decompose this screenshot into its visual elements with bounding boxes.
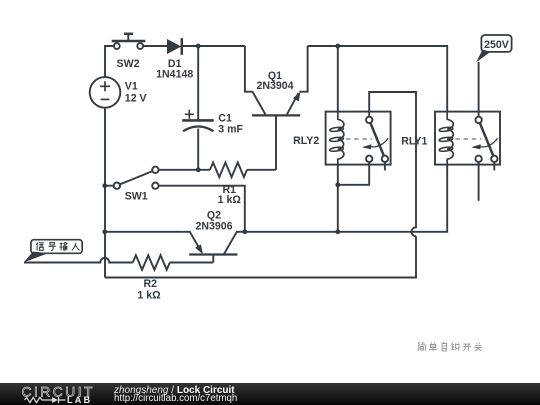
resistor R2 1k	[133, 255, 170, 270]
relay RLY2	[326, 112, 391, 165]
wire R1 to Q1 base	[247, 169, 276, 171]
node dot Q2 emitter junction	[242, 229, 247, 234]
wire D1 to Q1 collector corner	[183, 45, 245, 47]
svg-text:LAB: LAB	[67, 395, 92, 405]
wire bottom return rail	[105, 236, 416, 277]
wire SW1 upper throw to R1	[159, 169, 210, 171]
node dot SW1 pivot on left rail	[102, 183, 107, 188]
label 信号输入 signal input glyphs	[36, 242, 79, 250]
wire RLY1 top contact to 250V	[478, 62, 480, 117]
wire Q2 emitter node to RLY1 coil bottom	[245, 165, 447, 232]
transistor Q2 2N3906	[182, 232, 244, 263]
wire RLY2 coil drop	[337, 46, 339, 112]
wire left rail to Q2 collector	[105, 231, 183, 233]
resistor R1 1k	[210, 163, 247, 178]
svg-text:SW2: SW2	[117, 58, 140, 70]
svg-text:V1: V1	[125, 81, 138, 93]
node dot RLY2 coil/common tie	[335, 182, 340, 187]
footer logo CIRCUIT LAB	[18, 383, 118, 405]
node dot top rail RLY2 branch	[335, 44, 340, 49]
svg-text:250V: 250V	[484, 39, 509, 51]
wire top-left rail from V1 to SW2	[105, 46, 114, 77]
voltage flag 250V	[476, 35, 511, 62]
svg-text:2N3904: 2N3904	[256, 80, 293, 92]
svg-text:1 kΩ: 1 kΩ	[137, 290, 161, 302]
wire RLY2 coil bottom to return	[337, 165, 339, 232]
svg-text:1N4148: 1N4148	[156, 68, 193, 80]
voltage source V1 12V	[90, 77, 121, 108]
signal input callout 信号输入	[24, 240, 82, 263]
wire RLY1 common contact dangling	[478, 162, 480, 201]
left rail V1 to bottom	[104, 108, 106, 278]
svg-text:12 V: 12 V	[125, 92, 147, 104]
svg-text:2N3906: 2N3906	[195, 220, 232, 232]
svg-text:3 mF: 3 mF	[218, 123, 243, 135]
switch SW1	[105, 167, 159, 189]
capacitor C1 3mF	[182, 46, 214, 170]
wire RLY2 common contact to coil return junction	[338, 162, 369, 185]
wire RLY2 NC contact stub	[384, 162, 386, 170]
pushbutton SW2	[112, 34, 146, 49]
svg-text:RLY1: RLY1	[401, 136, 427, 148]
node dot C1 bottom junction	[196, 167, 201, 172]
svg-text:SW1: SW1	[125, 191, 148, 203]
footer author line	[114, 385, 235, 396]
node dot left rail Q2 line	[102, 229, 107, 234]
transistor Q1 2N3904	[245, 46, 308, 170]
footer url line	[114, 393, 237, 404]
label 简单自锁开关 caption glyphs	[418, 342, 482, 351]
diode D1 1N4148	[167, 38, 182, 55]
wire SW2 to D1	[143, 45, 167, 47]
relay RLY1	[435, 112, 500, 165]
wire top-right rail to RLY1 coil	[308, 46, 448, 112]
node dot RLY2 return junction	[335, 229, 340, 234]
wire RLY1 NC contact stub	[493, 162, 495, 170]
wire R2 to Q2 base	[170, 262, 214, 264]
wire SW1 lower throw down to Q2 emitter node	[159, 186, 245, 232]
wire signal input line with hop over left rail	[24, 258, 133, 263]
node dot at C1 top junction	[196, 44, 201, 49]
svg-text:RLY2: RLY2	[293, 135, 319, 147]
svg-text:1 kΩ: 1 kΩ	[218, 194, 242, 206]
footer bar	[0, 383, 540, 405]
wire hop vertical over horizontal and up to RLY2 contact	[369, 92, 416, 236]
svg-text:R2: R2	[144, 278, 158, 290]
